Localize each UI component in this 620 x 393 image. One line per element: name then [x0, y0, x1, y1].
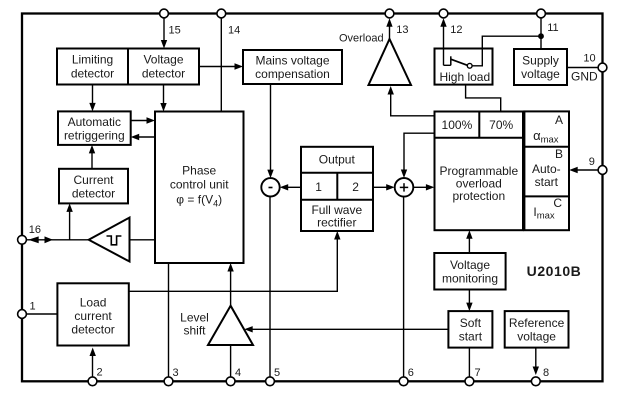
wire: pin 4 up to Level shift [230, 345, 232, 380]
wire: Reference voltage down to pin 8 with arrow [533, 348, 539, 375]
svg-text:8: 8 [543, 367, 549, 379]
switch inside High load box [451, 56, 472, 68]
svg-text:Phase: Phase [182, 164, 216, 178]
svg-text:Current: Current [73, 173, 114, 187]
summing node: plus circle [395, 178, 414, 197]
wire: overload protection box to Overload amplifier with arrow [388, 86, 435, 116]
wire: Voltage detector to Mains voltage compensation with arrow [199, 63, 243, 69]
svg-text:rectifier: rectifier [317, 215, 356, 229]
svg-text:4: 4 [235, 367, 241, 379]
box: Voltage monitoring [434, 253, 505, 290]
box: Phase control unit [155, 112, 244, 264]
box: Output / Full wave rectifier [301, 147, 373, 231]
svg-text:retriggering: retriggering [64, 128, 125, 142]
svg-text:Output: Output [319, 153, 356, 167]
svg-text:7: 7 [475, 367, 481, 379]
pin 2 [88, 367, 103, 386]
pin 4 [226, 367, 241, 386]
svg-text:11: 11 [547, 22, 558, 34]
wire: schmitt trigger output to Phase control unit [130, 239, 156, 241]
wire: High load bottom to overload protection box top [466, 85, 501, 112]
wire: plus node down to pin 6 [403, 197, 405, 380]
svg-text:Overload: Overload [339, 32, 384, 44]
svg-text:shift: shift [183, 324, 206, 338]
wire: pin 2 up to Load current detector with arrow [90, 348, 96, 378]
pin 15 [160, 9, 181, 36]
svg-text:monitoring: monitoring [442, 271, 498, 285]
wire: Limiting detector to Automatic retriggering with arrow [89, 85, 95, 112]
box: Limiting detector / Voltage detector [57, 49, 199, 85]
svg-text:GND: GND [571, 70, 598, 84]
schmitt trigger triangle with pulse symbol [89, 218, 130, 262]
pin 8 [531, 367, 549, 386]
wire: Current detector up to Automatic retriggering with arrow [89, 145, 95, 169]
svg-text:1: 1 [30, 301, 36, 313]
wire: Supply voltage to pin 10 [567, 67, 600, 69]
svg-text:6: 6 [408, 367, 414, 379]
svg-text:detector: detector [71, 322, 114, 336]
pin 1 [18, 301, 36, 319]
box: Load current detector [57, 283, 128, 345]
wire: Overload amplifier up to pin 13 with arrow [386, 18, 392, 39]
summing node: minus circle [261, 178, 279, 196]
svg-text:compensation: compensation [255, 67, 330, 81]
svg-text:Automatic: Automatic [68, 115, 121, 129]
wire: minus node down to pin 5 [269, 197, 271, 381]
svg-text:1: 1 [315, 180, 322, 194]
svg-text:start: start [459, 330, 483, 344]
pin 6 [399, 367, 414, 386]
svg-text:Supply: Supply [522, 54, 559, 68]
wire: Output cell 1 to minus node with arrow [280, 184, 301, 190]
pin 11 [537, 9, 559, 34]
svg-text:C: C [553, 196, 562, 210]
svg-text:U2010B: U2010B [527, 263, 582, 279]
box: Supply voltage [514, 49, 567, 85]
wire: Voltage detector bottom to Phase control unit with arrow [160, 85, 166, 112]
box: Automatic retriggering [58, 111, 131, 144]
svg-text:70%: 70% [489, 118, 513, 132]
wire: Load current detector to Full wave rectifier with arrow [129, 231, 341, 291]
svg-text:protection: protection [452, 189, 505, 203]
svg-text:Load: Load [80, 295, 107, 309]
wire: pin 1 to Load current detector [24, 313, 57, 315]
wire: Voltage monitoring down to Soft start with arrow [466, 290, 472, 312]
svg-text:100%: 100% [442, 118, 473, 132]
pin 7 [465, 367, 481, 386]
svg-text:current: current [74, 309, 112, 323]
svg-text:Auto-: Auto- [532, 162, 561, 176]
pin 12 [439, 9, 462, 36]
svg-text:voltage: voltage [521, 67, 560, 81]
svg-text:16: 16 [29, 224, 41, 236]
pin 9 [589, 156, 607, 174]
pin 3 [164, 367, 179, 386]
box: Reference voltage [505, 311, 569, 348]
svg-text:voltage: voltage [517, 330, 556, 344]
svg-text:Mains voltage: Mains voltage [255, 54, 329, 68]
pin 5 [266, 367, 281, 386]
pin 16 [18, 224, 41, 244]
wire: overload protection box to plus node with arrow [401, 133, 435, 178]
svg-text:3: 3 [173, 367, 179, 379]
box: Current detector [59, 169, 128, 204]
wire: Soft start to Level shift with arrow [244, 326, 448, 332]
svg-text:2: 2 [97, 367, 103, 379]
box: High load [435, 49, 493, 85]
svg-text:Reference: Reference [509, 316, 565, 330]
svg-text:10: 10 [583, 53, 595, 65]
svg-text:detector: detector [142, 66, 185, 80]
svg-text:Soft: Soft [460, 316, 482, 330]
wire: junction up to Current detector with arrow [66, 203, 72, 239]
wire: pin 16 bidirectional to schmitt trigger input [24, 236, 89, 243]
wire: pin 3 up to Phase control unit [168, 263, 170, 380]
wire: plus node to Programmable overload protection with arrow [413, 184, 434, 190]
pin 14 [217, 9, 240, 36]
svg-text:5: 5 [274, 367, 280, 379]
wire: switch output up over to pin 11 junction and Supply voltage [472, 18, 544, 66]
svg-text:Voltage: Voltage [450, 258, 490, 272]
svg-text:A: A [555, 113, 563, 127]
svg-text:B: B [555, 147, 563, 161]
svg-text:detector: detector [72, 186, 115, 200]
svg-text:control unit: control unit [170, 177, 229, 191]
wire: High load switch up to pin 12 with arrow [440, 18, 451, 65]
amplifier triangle: Overload [339, 32, 411, 85]
wire: Mains voltage compensation down to minus node with arrow [267, 84, 273, 178]
box: Soft start [448, 311, 492, 348]
svg-text:15: 15 [169, 25, 181, 37]
wire: Level shift up to Phase control unit with arrow [227, 263, 233, 306]
pin 10 [583, 53, 606, 72]
box: Programmable overload protection with 100% / 70% row [435, 112, 524, 231]
wire: Automatic retriggering to Phase control unit with arrow [131, 117, 155, 123]
svg-text:detector: detector [71, 66, 114, 80]
amplifier triangle: Level shift [180, 306, 253, 345]
svg-text:14: 14 [228, 25, 240, 37]
svg-text:High load: High load [439, 70, 490, 84]
svg-text:Voltage: Voltage [143, 53, 183, 67]
pin 13 [385, 9, 408, 36]
svg-text:2: 2 [352, 180, 359, 194]
svg-text:9: 9 [589, 156, 595, 168]
wire: Soft start down to pin 7 [468, 348, 470, 380]
wire: pin 14 down to Phase control unit top [220, 18, 222, 112]
wire: pin 9 to Auto-start cell with arrow [569, 167, 599, 173]
svg-text:start: start [535, 175, 559, 189]
box: Mains voltage compensation [243, 50, 342, 84]
svg-text:Level: Level [180, 311, 209, 325]
svg-text:Limiting: Limiting [72, 53, 113, 67]
wire: overload protection to Voltage monitoring with arrow [466, 230, 472, 253]
svg-text:13: 13 [396, 24, 408, 36]
svg-text:12: 12 [450, 24, 462, 36]
wire: Output cell 2 to plus node with arrow [373, 184, 395, 190]
box: A alpha-max / B Auto-start / C I-max column [524, 111, 569, 230]
wire: Phase control unit back to Automatic retriggering with arrow [131, 134, 155, 140]
wire: pin 15 to Voltage detector with arrow [161, 18, 167, 49]
